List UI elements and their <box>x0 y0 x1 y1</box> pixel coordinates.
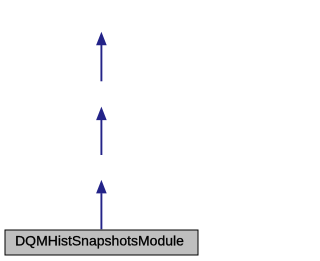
svg-text:DQMHistSnapshotsModule: DQMHistSnapshotsModule <box>15 233 184 249</box>
arrow 1 (top) : wire <box>96 32 107 82</box>
arrow 3 (bottom) : wire <box>96 180 107 229</box>
inheritance diagram canvas <box>0 0 203 261</box>
arrow 2 (middle) : wire <box>96 107 107 155</box>
node DQMHistSnapshotsModule <box>5 230 198 255</box>
